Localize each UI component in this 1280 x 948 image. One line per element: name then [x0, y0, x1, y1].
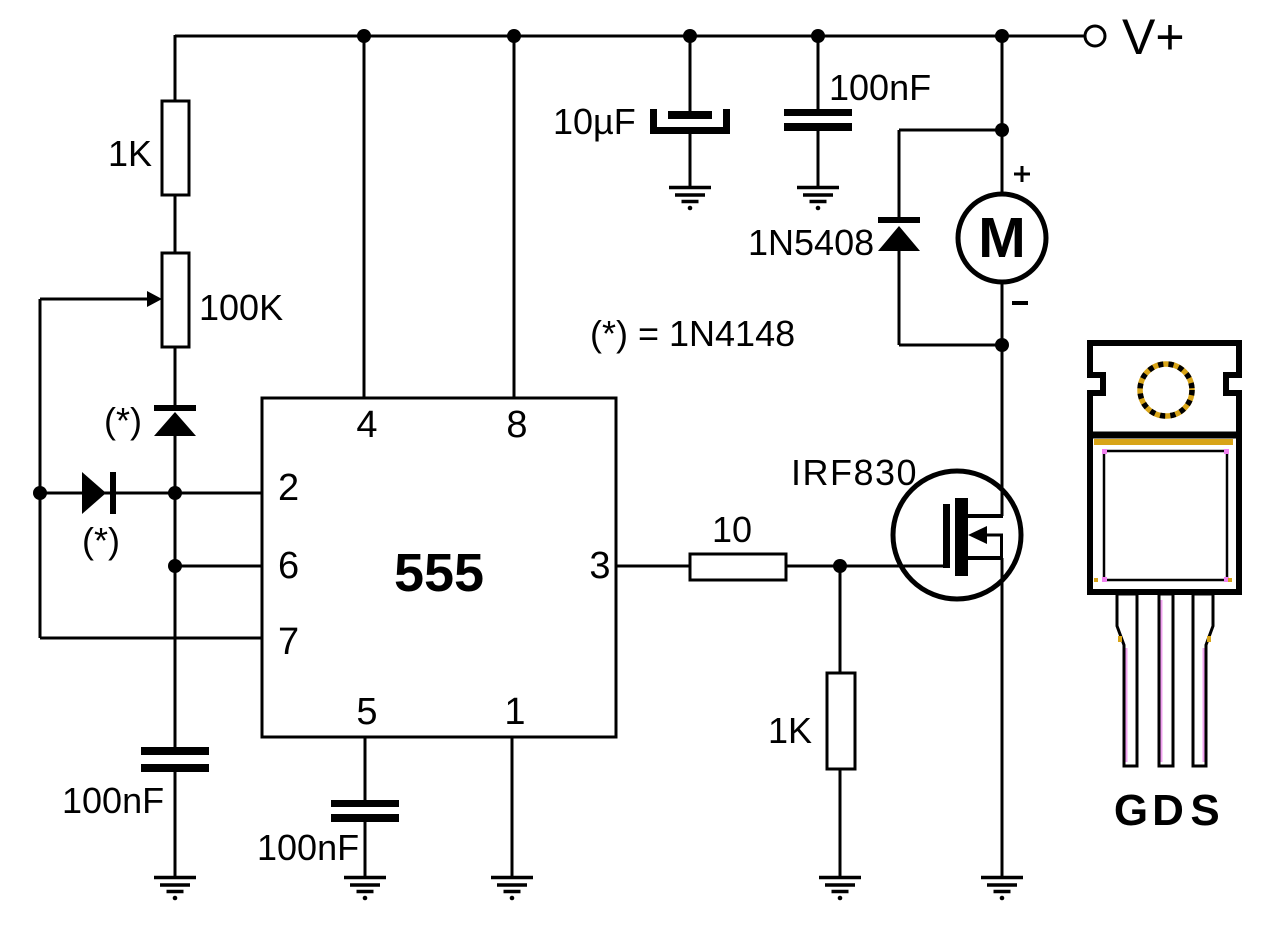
transistor body arrow: [968, 526, 987, 544]
svg-text:100K: 100K: [199, 287, 283, 328]
wire left drop to R1: [174, 35, 177, 102]
svg-text:100nF: 100nF: [829, 67, 931, 108]
wire R4 to ground: [839, 769, 842, 878]
svg-text:10: 10: [712, 509, 752, 550]
ground source rail: [981, 878, 1023, 901]
capacitor 100nF top plate: [784, 109, 852, 116]
TO220 gold line: [1094, 439, 1233, 445]
wire pot to diode D1: [174, 347, 177, 407]
wire pin 6 horizontal: [175, 565, 262, 568]
svg-text:5: 5: [356, 691, 377, 733]
node motor rail: [995, 29, 1009, 43]
transistor body-source stub: [1000, 535, 1003, 558]
ground pin1: [491, 878, 533, 901]
TO220 hole dashed ring: [1140, 364, 1192, 416]
capacitor C1 100nF plate top: [141, 747, 209, 755]
transistor drain line: [966, 514, 1003, 518]
diode 1N5408 triangle: [878, 226, 920, 251]
svg-text:M: M: [978, 206, 1025, 270]
node 1N5408 top: [995, 123, 1009, 137]
label G D S: [1114, 786, 1220, 835]
svg-text:(*) = 1N4148: (*) = 1N4148: [590, 313, 795, 354]
IC 555 body: [262, 398, 616, 737]
capacitor 10uF plus plate: [668, 111, 712, 119]
wire 100nF to ground: [817, 130, 820, 187]
svg-text:100nF: 100nF: [62, 780, 164, 821]
wire node2 to node6: [174, 493, 177, 567]
svg-text:D: D: [1152, 786, 1184, 835]
wire pin 3 to R3: [616, 565, 690, 568]
node pin8 rail: [507, 29, 521, 43]
svg-text:1K: 1K: [108, 133, 152, 174]
capacitor C2 100nF plate bottom: [331, 814, 399, 822]
svg-text:4: 4: [356, 404, 377, 446]
TO220 leg D: [1159, 594, 1173, 766]
diode D1 (*) cathode bar: [154, 405, 196, 411]
TO220 leg pink accents: [1127, 600, 1204, 762]
ground C2: [344, 878, 386, 901]
wire gate node down to R4: [839, 566, 842, 673]
wire pin 2 horizontal: [40, 492, 262, 495]
wire 1N5408 top branch: [899, 129, 1002, 132]
svg-text:(*): (*): [104, 400, 142, 441]
node pin2: [168, 486, 182, 500]
capacitor C2 100nF plate top: [331, 800, 399, 807]
wire 1N5408 bottom branch: [899, 344, 1002, 347]
node gate: [833, 559, 847, 573]
transistor IRF830 circle: [893, 471, 1021, 599]
wire R3 to gate node: [786, 565, 947, 568]
wire 1N5408 anode drop: [898, 130, 901, 219]
svg-text:V+: V+: [1122, 9, 1185, 65]
resistor 10 R3: [690, 554, 786, 580]
wire pin 5 to C2: [364, 737, 367, 801]
wire left vertical from wiper to pin7: [39, 299, 42, 638]
diode D1 (*) triangle: [154, 412, 196, 436]
resistor 1K R1: [162, 101, 189, 195]
wire node6 down to C1: [174, 566, 177, 748]
wire C2 to ground: [364, 821, 367, 878]
ground symbols: [154, 188, 1023, 901]
motor minus sign: [1012, 301, 1028, 305]
svg-text:1: 1: [504, 691, 525, 733]
ground 100nF top: [797, 188, 839, 211]
wire 1N5408 cathode drop: [898, 249, 901, 345]
TO220 leg S: [1193, 594, 1213, 766]
diode D2 (*) triangle: [82, 472, 106, 514]
svg-text:G: G: [1114, 786, 1148, 835]
svg-text:6: 6: [278, 545, 299, 587]
potentiometer wiper arrow head: [147, 291, 162, 307]
wire motor top feed: [1001, 36, 1004, 195]
terminal V+ circle: [1085, 26, 1105, 46]
node 1N5408 bottom: [995, 338, 1009, 352]
wire source rail to ground: [1001, 558, 1004, 878]
IC 555 pin numbers: [278, 404, 611, 733]
wire R1 to pot: [174, 195, 177, 254]
svg-text:8: 8: [506, 404, 527, 446]
TO220 leg G: [1117, 594, 1137, 766]
svg-text:1K: 1K: [768, 710, 812, 751]
svg-text:1N5408: 1N5408: [748, 222, 874, 263]
resistor 1K R4: [827, 673, 855, 769]
node pin4 rail: [357, 29, 371, 43]
wire pin 8 vertical: [513, 36, 516, 398]
wire top V+ rail: [175, 35, 1084, 38]
potentiometer 100K body: [162, 253, 189, 347]
diode D2 (*) cathode bar: [110, 472, 116, 514]
TO220 window pink corners: [1102, 449, 1229, 582]
wire 10uF branch top: [689, 36, 692, 113]
ground 10uF: [669, 188, 711, 211]
TO220 package outline: [1090, 343, 1239, 592]
svg-text:7: 7: [278, 621, 299, 663]
transistor source line: [966, 556, 1003, 560]
node pin6: [168, 559, 182, 573]
svg-text:100nF: 100nF: [257, 827, 359, 868]
svg-text:3: 3: [589, 545, 610, 587]
wire 10uF to ground: [689, 133, 692, 187]
wire pin 1 to ground: [511, 737, 514, 878]
capacitor 10uF bracket plate: [650, 109, 730, 134]
svg-text:2: 2: [278, 467, 299, 509]
TO220 tab divider: [1087, 432, 1242, 439]
node 100nF rail: [811, 29, 825, 43]
transistor channel bar: [955, 498, 968, 576]
svg-text:555: 555: [394, 543, 484, 603]
wire D1 to node pin2: [174, 434, 177, 494]
transistor gate bar: [943, 504, 950, 568]
wire pot wiper arm: [40, 298, 148, 301]
ground C1: [154, 878, 196, 901]
diode 1N5408 cathode bar: [878, 217, 920, 223]
capacitor 100nF bottom plate: [784, 123, 852, 131]
TO220 hole gold ring: [1140, 364, 1192, 416]
motor plus sign: [1014, 166, 1030, 182]
ground R4: [819, 878, 861, 901]
wire motor bottom to drain: [1001, 281, 1004, 516]
wire pin 4 vertical: [363, 36, 366, 398]
TO220 gold specks: [1094, 578, 1232, 642]
motor M circle: [958, 194, 1046, 282]
transistor body line: [980, 534, 1003, 537]
capacitor C1 100nF plate bottom: [141, 764, 209, 772]
svg-text:IRF830: IRF830: [791, 452, 918, 493]
wire C1 to ground: [174, 771, 177, 878]
TO220 body inner window: [1104, 451, 1227, 580]
svg-text:(*): (*): [82, 520, 120, 561]
wire 100nF top branch: [817, 36, 820, 110]
wire pin 7 horizontal: [40, 637, 262, 640]
node wiper left: [33, 486, 47, 500]
svg-text:S: S: [1190, 786, 1219, 835]
svg-text:10µF: 10µF: [553, 101, 636, 142]
node 10uF rail: [683, 29, 697, 43]
